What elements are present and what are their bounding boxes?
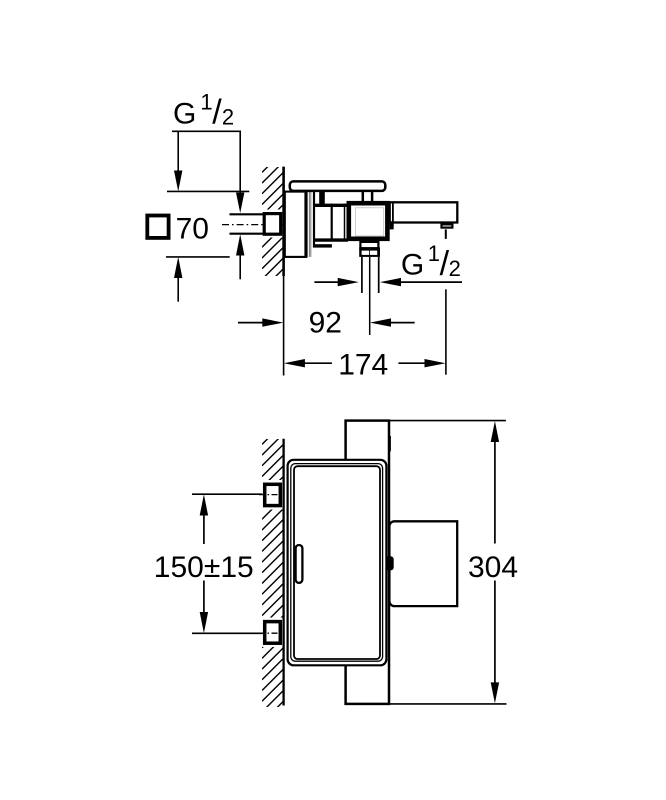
svg-text:174: 174	[338, 349, 388, 382]
outlet extension line left	[361, 257, 363, 293]
escutcheon cover middle	[291, 464, 383, 662]
svg-text:G: G	[401, 249, 424, 282]
wall extension line continuing down (174 dim left extension)	[283, 276, 285, 376]
top extension line (304)	[390, 420, 506, 422]
dim 174 right arrow	[398, 362, 424, 364]
G1/2 arrow down to pipe	[236, 193, 244, 214]
vertical body bar	[346, 421, 389, 704]
aerator under spout tip	[442, 224, 453, 227]
escutcheon cover inner	[294, 466, 380, 659]
G1/2 (spout) dimension: left short arrow	[314, 281, 338, 283]
dash-dot centerline lower fitting	[259, 632, 285, 634]
bump on bar right edge	[389, 436, 391, 452]
wall face line (bottom view)	[282, 439, 284, 706]
water tick below aerator	[445, 229, 447, 239]
spout joint nub	[390, 221, 394, 229]
svg-text:2: 2	[449, 256, 461, 281]
dash-dot centerline upper fitting	[259, 494, 285, 496]
right post under plate (hollow)	[362, 191, 365, 202]
pipe dash-dot centerline	[222, 224, 283, 226]
knob on right edge	[386, 556, 393, 570]
body lower flange	[313, 244, 332, 247]
G1/2 (spout) label text	[401, 241, 461, 283]
svg-text:70: 70	[176, 213, 209, 246]
top plate (rounded)	[290, 181, 386, 191]
body divider line	[331, 204, 333, 240]
spout protrusion (side)	[389, 521, 457, 606]
dim 70 lower arrow	[174, 257, 182, 278]
svg-text:304: 304	[468, 551, 518, 584]
left post under plate	[319, 191, 325, 205]
dim 92 left arrow	[238, 322, 264, 324]
white halo around inlet fitting (top view)	[260, 210, 284, 238]
svg-text:1: 1	[200, 90, 212, 115]
escutcheon plate (side)	[285, 192, 306, 257]
dim 150 upper arrow (points up)	[200, 494, 208, 515]
G1/2 (spout) right arrow + underline	[380, 278, 401, 286]
body bottom edge	[314, 238, 348, 241]
G1/2 (top) underline	[172, 130, 241, 132]
square handle (thick border)	[349, 203, 388, 239]
inlet square fitting (top view)	[264, 214, 281, 235]
body top edge	[314, 204, 348, 207]
G1/2 (top) label text	[173, 90, 234, 132]
dim 174 left arrow	[284, 359, 305, 367]
supply pipe top line	[230, 213, 265, 215]
body back panel line	[313, 191, 315, 248]
bottom extension line (304)	[390, 703, 507, 705]
svg-text:150±15: 150±15	[154, 551, 254, 584]
svg-text:G: G	[173, 98, 196, 131]
lower wall fitting (bottom view)	[265, 622, 281, 644]
white halos around wall fittings (bottom view)	[260, 480, 284, 510]
dim 70 upper arrow	[177, 131, 179, 170]
svg-text:/: /	[212, 94, 222, 132]
svg-text:92: 92	[309, 306, 342, 339]
dim 70 top extension line	[167, 190, 249, 192]
faint inner square	[356, 208, 384, 236]
dim 150 lower arrow (points down)	[203, 581, 205, 613]
dim 150 lower extension line	[192, 632, 263, 634]
svg-text:1: 1	[428, 241, 440, 266]
wall hatching (top view)	[262, 150, 284, 300]
square symbol of dimension 70	[147, 216, 168, 238]
G1/2 (top) vertical leader	[239, 131, 241, 193]
wall hatching (bottom view)	[262, 422, 284, 722]
G1/2 arrow up to pipe (below)	[236, 234, 244, 255]
spout	[390, 202, 458, 222]
escutcheon right edge (thick)	[304, 191, 307, 258]
dim 174 right extension line	[445, 289, 447, 374]
outlet centerline down	[369, 257, 371, 335]
escutcheon cover faint double line	[308, 192, 310, 257]
dim 92 right arrow	[370, 318, 391, 326]
shower outlet neck	[360, 242, 378, 248]
supply pipe bottom line	[230, 233, 265, 235]
dim 150 upper extension line	[192, 493, 263, 495]
wall face line (top view)	[282, 167, 285, 276]
escutcheon cover outer	[288, 460, 387, 666]
dim 70 bottom extension line	[166, 256, 230, 258]
handle groove capsule	[296, 545, 303, 583]
dim 304 vertical line + arrows	[491, 421, 499, 442]
svg-text:2: 2	[222, 105, 234, 130]
shower outlet collar (threaded)	[359, 247, 380, 257]
thin line left of square handle	[344, 204, 346, 240]
spout joint line	[392, 204, 394, 222]
upper wall fitting (bottom view)	[265, 484, 281, 505]
outlet extension line right	[378, 257, 380, 293]
